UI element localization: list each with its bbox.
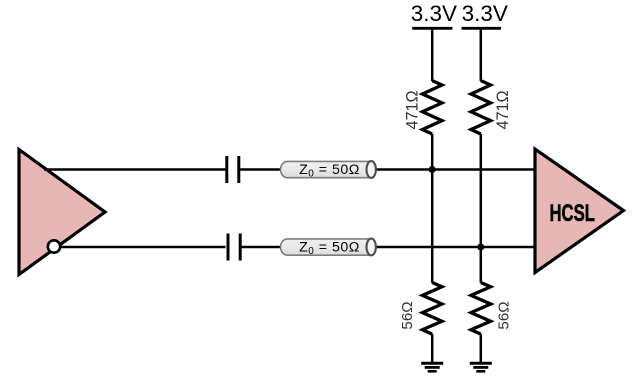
svg-text:HCSL: HCSL — [549, 200, 595, 227]
svg-text:3.3V: 3.3V — [462, 1, 508, 26]
power rail bar (left 3.3V) — [412, 27, 452, 30]
capacitor C1 (top coupling cap) — [227, 156, 239, 183]
wire (left rail: R3 to ground) — [431, 334, 434, 364]
transmission line TL2 (bottom, Z0 = 50 ohm) — [281, 239, 376, 257]
ground (left) — [421, 363, 443, 371]
wire (bottom signal, cap to HCSL receiver) — [240, 246, 535, 249]
resistor R1 471 ohm (left pull-up) — [422, 81, 442, 134]
inversion bubble on driver lower output — [48, 240, 60, 252]
receiver U2 HCSL (right triangle) — [535, 149, 624, 273]
power rail bar (right 3.3V) — [462, 27, 502, 30]
svg-text:471Ω: 471Ω — [494, 90, 512, 129]
wire (right rail: R4 to ground) — [480, 334, 483, 364]
resistor R4 56 ohm (right pull-down) — [471, 283, 491, 335]
driver U1 (differential output buffer, left triangle) — [19, 150, 105, 275]
resistor R2 471 ohm (right pull-up) — [471, 81, 491, 134]
wire (right rail: 3.3V bar down to R2) — [480, 28, 483, 81]
ground (right) — [470, 363, 492, 371]
capacitor C2 (bottom coupling cap) — [228, 234, 240, 261]
resistor R3 56 ohm (left pull-down) — [422, 283, 442, 335]
wire (top signal, driver to coupling cap) — [44, 168, 226, 171]
svg-text:Z0 = 50Ω: Z0 = 50Ω — [299, 239, 360, 256]
junction dot (right rail on bottom signal) — [477, 244, 484, 251]
wire (left rail: R1 down through both signal lines to R3) — [431, 134, 434, 283]
svg-text:471Ω: 471Ω — [404, 90, 422, 129]
svg-text:3.3V: 3.3V — [411, 1, 457, 26]
transmission line TL1 (top, Z0 = 50 ohm) — [281, 161, 376, 179]
svg-text:56Ω: 56Ω — [399, 301, 416, 329]
junction dot (left rail on top signal) — [429, 166, 436, 173]
wire (right rail: R2 down through both signal lines to R4) — [480, 134, 483, 283]
svg-text:56Ω: 56Ω — [496, 301, 513, 329]
wire (left rail: 3.3V bar down to R1) — [431, 28, 434, 81]
svg-text:Z0 = 50Ω: Z0 = 50Ω — [299, 162, 360, 179]
wire (bottom signal, bubble to coupling cap) — [60, 246, 226, 249]
wire (top signal, cap to HCSL receiver) — [240, 168, 535, 171]
